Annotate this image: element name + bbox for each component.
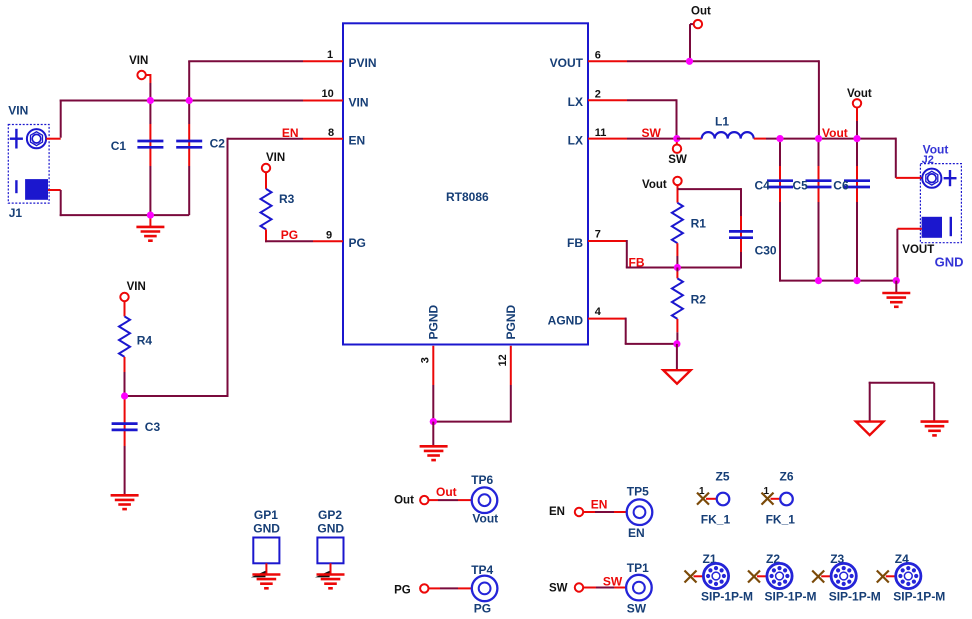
wire J1 minus stub <box>48 189 61 191</box>
svg-text:R1: R1 <box>691 217 707 231</box>
wire LX pin2 down <box>627 99 677 138</box>
U1 pin 10 VIN <box>303 88 369 109</box>
J2 labels <box>902 244 963 270</box>
capacitor C4 <box>755 139 794 282</box>
svg-text:Out: Out <box>436 485 457 499</box>
ground under C1 <box>136 215 164 241</box>
node C5 top junction <box>815 135 822 142</box>
svg-text:C1: C1 <box>111 139 127 153</box>
wire L1 to Vout rail <box>754 126 896 140</box>
svg-text:SW: SW <box>627 602 647 616</box>
svg-text:GND: GND <box>317 522 344 536</box>
node C4 top junction <box>776 135 783 142</box>
capacitor C30 <box>729 216 777 269</box>
svg-text:VIN: VIN <box>266 152 285 164</box>
svg-text:SIP-1P-M: SIP-1P-M <box>765 589 817 603</box>
svg-text:EN: EN <box>349 134 366 148</box>
testpoint TP4 <box>471 563 497 616</box>
U1 pin 9 PG <box>313 229 366 250</box>
wire EN net <box>125 126 303 396</box>
svg-text:R3: R3 <box>279 192 295 206</box>
capacitor C2 <box>176 101 225 216</box>
wire AGND net <box>625 318 677 344</box>
svg-text:FK_1: FK_1 <box>701 513 731 527</box>
node PGND junction <box>430 418 437 425</box>
svg-text:SW: SW <box>668 154 687 166</box>
svg-text:C30: C30 <box>755 244 777 258</box>
svg-text:10: 10 <box>322 88 334 100</box>
svg-text:J1: J1 <box>9 206 23 220</box>
U1 pin 6 VOUT <box>550 50 627 71</box>
svg-text:PG: PG <box>281 228 298 242</box>
svg-text:Vout: Vout <box>822 126 848 140</box>
ground under C3 <box>111 495 139 509</box>
testpoint TP5 <box>627 485 653 540</box>
part Z6 FK_1 <box>762 469 796 526</box>
J2 minus terminal pad <box>922 217 951 238</box>
wire J1 to VIN bus <box>60 100 303 138</box>
port PG to TP4 <box>394 584 472 596</box>
svg-text:GND: GND <box>253 522 280 536</box>
svg-text:PG: PG <box>474 602 491 616</box>
svg-text:8: 8 <box>328 127 334 139</box>
wire PVIN riser <box>188 61 303 101</box>
node C6 top junction <box>853 135 860 142</box>
part Z4 SIP-1P-M <box>877 552 946 604</box>
wire SW net <box>627 126 677 140</box>
J2 plus terminal jack <box>922 169 956 188</box>
svg-text:2: 2 <box>595 88 601 100</box>
svg-text:EN: EN <box>591 498 608 512</box>
node FB junction <box>674 264 681 271</box>
ground under PGND <box>420 422 448 461</box>
svg-text:EN: EN <box>282 126 299 140</box>
svg-text:Vout: Vout <box>847 88 872 100</box>
svg-text:EN: EN <box>628 526 645 540</box>
port Out to TP6 <box>394 485 472 507</box>
svg-text:Out: Out <box>691 6 711 18</box>
capacitor C1 <box>111 101 164 216</box>
wire C30 top branch <box>678 188 742 216</box>
J1 plus terminal jack <box>10 129 46 149</box>
svg-text:Vout: Vout <box>472 512 498 526</box>
svg-text:12: 12 <box>497 354 509 366</box>
svg-text:VIN: VIN <box>349 95 369 109</box>
svg-text:4: 4 <box>595 306 602 318</box>
svg-text:SIP-1P-M: SIP-1P-M <box>829 589 881 603</box>
node J2 gnd junction <box>893 277 900 284</box>
svg-text:AGND: AGND <box>548 314 584 328</box>
svg-text:PG: PG <box>349 236 366 250</box>
svg-text:3: 3 <box>420 357 432 363</box>
U1 pin 4 AGND <box>548 306 626 327</box>
port EN to TP5 <box>549 498 627 518</box>
port Vout above R1 <box>642 177 682 203</box>
svg-text:C2: C2 <box>210 136 226 150</box>
node C6 bottom junction <box>853 277 860 284</box>
svg-text:R4: R4 <box>137 333 153 347</box>
svg-text:VIN: VIN <box>8 103 28 117</box>
ground AGND triangle <box>663 344 690 384</box>
svg-text:6: 6 <box>595 50 601 62</box>
part Z5 FK_1 <box>697 469 730 526</box>
op-amp U1 RT8086 IC body <box>343 23 588 344</box>
svg-text:9: 9 <box>326 229 332 241</box>
svg-text:1: 1 <box>764 486 770 497</box>
svg-text:11: 11 <box>595 127 607 139</box>
svg-text:LX: LX <box>568 95 583 109</box>
part Z1 SIP-1P-M <box>685 552 754 604</box>
svg-text:SIP-1P-M: SIP-1P-M <box>701 589 753 603</box>
part Z3 SIP-1P-M <box>812 552 881 604</box>
svg-text:SIP-1P-M: SIP-1P-M <box>893 589 945 603</box>
svg-text:Z6: Z6 <box>780 469 794 483</box>
testpoint TP6 <box>471 473 498 526</box>
svg-text:1: 1 <box>327 49 333 61</box>
wire PG net <box>265 228 313 242</box>
svg-text:EN: EN <box>549 506 565 518</box>
node C5 bottom junction <box>815 277 822 284</box>
wire FB net <box>626 240 741 270</box>
svg-text:TP4: TP4 <box>471 563 493 577</box>
port VIN top <box>129 55 150 100</box>
port Out top <box>690 6 711 62</box>
svg-text:SW: SW <box>549 582 568 594</box>
port VIN above R4 <box>120 281 145 316</box>
resistor R3 <box>261 189 295 242</box>
svg-text:L1: L1 <box>715 115 729 129</box>
svg-text:Vout: Vout <box>642 179 667 191</box>
svg-text:PGND: PGND <box>504 304 518 339</box>
svg-text:Z5: Z5 <box>716 469 730 483</box>
svg-text:SW: SW <box>642 126 662 140</box>
wire J1 plus stub <box>46 138 60 140</box>
wire PGND net <box>432 385 512 422</box>
svg-text:FK_1: FK_1 <box>766 513 796 527</box>
node VIN-C2 junction <box>186 97 193 104</box>
port SW below <box>668 139 687 166</box>
svg-text:PGND: PGND <box>427 304 441 339</box>
U1 pin 1 PVIN <box>303 49 377 70</box>
wire VOUT pin6 net <box>627 60 819 138</box>
svg-text:C3: C3 <box>145 420 161 434</box>
connector J1 dashed box <box>8 103 49 220</box>
wire J1 minus down <box>60 190 190 216</box>
svg-text:SW: SW <box>603 575 623 589</box>
svg-text:VOUT: VOUT <box>902 244 934 256</box>
svg-text:TP5: TP5 <box>627 485 649 499</box>
testpoint TP1 <box>626 561 652 616</box>
ground under GP2 <box>315 571 345 589</box>
svg-text:LX: LX <box>568 134 583 148</box>
node SW junction <box>673 135 680 142</box>
port VIN above R3 <box>262 152 285 189</box>
svg-text:R2: R2 <box>691 292 707 306</box>
svg-text:VIN: VIN <box>129 55 148 67</box>
U1 pin 11 LX <box>568 127 627 148</box>
svg-text:RT8086: RT8086 <box>446 190 489 204</box>
svg-text:VOUT: VOUT <box>550 56 584 70</box>
wire SW to L1 <box>677 138 702 140</box>
svg-text:C6: C6 <box>833 178 849 192</box>
wire output bottom rail <box>779 280 897 282</box>
inductor L1 <box>702 115 754 139</box>
capacitor C6 <box>833 139 870 282</box>
svg-text:GND: GND <box>935 255 964 270</box>
svg-text:7: 7 <box>595 229 601 241</box>
svg-text:1: 1 <box>699 486 705 497</box>
node AGND junction <box>673 340 680 347</box>
ground under GP1 <box>251 571 281 589</box>
port Vout above C6 <box>847 88 872 139</box>
resistor R4 <box>119 316 152 396</box>
U1 pin 12 PGND <box>497 304 518 385</box>
wire J2 minus to gnd <box>897 229 921 281</box>
capacitor C5 <box>793 139 832 282</box>
svg-text:VIN: VIN <box>127 281 146 293</box>
svg-text:GP1: GP1 <box>254 508 278 522</box>
port SW to TP1 <box>549 575 626 595</box>
wire gnd bridge <box>869 382 935 422</box>
svg-text:TP6: TP6 <box>471 473 493 487</box>
pad GP1 GND square <box>253 508 280 575</box>
svg-text:J2: J2 <box>922 154 934 166</box>
J1 minus terminal pad <box>16 179 48 200</box>
svg-text:Out: Out <box>394 495 414 507</box>
svg-text:C5: C5 <box>793 178 809 192</box>
node VIN-C1 junction <box>147 97 154 104</box>
resistor R1 <box>672 203 706 268</box>
svg-text:TP1: TP1 <box>627 561 649 575</box>
svg-text:PG: PG <box>394 584 411 596</box>
ground triangle left <box>856 422 883 436</box>
node C1 gnd junction <box>147 212 154 219</box>
U1 pin 7 FB <box>567 229 627 250</box>
node EN junction <box>121 392 128 399</box>
part Z2 SIP-1P-M <box>748 552 817 604</box>
U1 pin 3 PGND <box>420 304 441 385</box>
node VOUT-Out junction <box>686 58 693 65</box>
svg-text:GP2: GP2 <box>318 508 342 522</box>
ground under J2 <box>882 281 910 307</box>
pad GP2 GND square <box>317 508 344 575</box>
U1 pin 8 EN <box>303 127 365 148</box>
resistor R2 <box>672 268 706 344</box>
svg-text:C4: C4 <box>755 178 771 192</box>
svg-text:FB: FB <box>629 256 645 270</box>
U1 pin 2 LX <box>568 88 627 109</box>
ground earth right <box>921 422 949 436</box>
svg-text:PVIN: PVIN <box>349 56 377 70</box>
connector J2 dashed box <box>920 142 961 242</box>
wire Vout rail to J2 <box>896 138 922 178</box>
capacitor C3 <box>112 396 161 495</box>
svg-text:FB: FB <box>567 236 583 250</box>
